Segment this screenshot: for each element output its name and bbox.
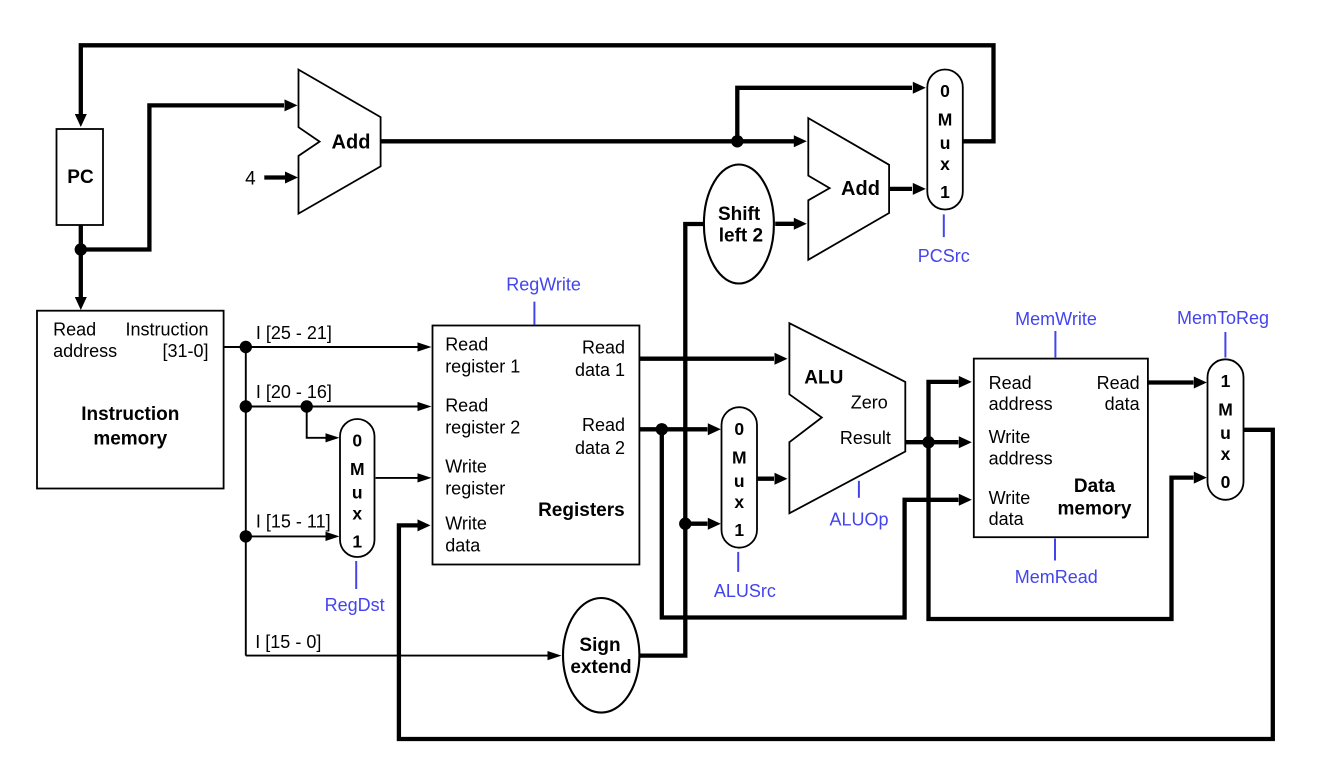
svg-text:data: data xyxy=(445,535,481,555)
wire: ALUSrc mux output to ALU input xyxy=(758,477,774,481)
svg-text:x: x xyxy=(352,504,362,524)
svg-text:MemToReg: MemToReg xyxy=(1177,308,1269,328)
wire: branch Add output to PCSrc mux input 1 xyxy=(889,187,912,191)
node: junction on Read data 2 xyxy=(656,423,668,435)
svg-text:u: u xyxy=(1220,423,1231,443)
wire: I[20-16] branch down to RegDst mux input 0 xyxy=(307,407,327,438)
svg-text:0: 0 xyxy=(734,419,744,439)
control signal ALUSrc xyxy=(737,552,739,572)
wire: Read data 2 to ALUSrc mux input 0 xyxy=(639,427,707,431)
wire: constant 4 into Add xyxy=(264,175,286,179)
svg-text:x: x xyxy=(940,154,950,174)
block: Registers xyxy=(433,326,640,565)
block: Instruction memory xyxy=(37,311,224,489)
wire: I[20-16] to Read register 2 xyxy=(246,406,419,408)
svg-text:M: M xyxy=(938,110,953,130)
wire: PC output down to Instruction memory read address xyxy=(79,222,83,298)
node: junction on PC+4 wire xyxy=(731,135,743,147)
register PC xyxy=(57,129,104,225)
svg-text:Sign: Sign xyxy=(579,635,620,656)
svg-text:Write: Write xyxy=(445,456,487,476)
svg-text:Read: Read xyxy=(53,320,96,340)
wire: PC branch to Add (PC+4) xyxy=(81,105,284,249)
svg-text:u: u xyxy=(352,483,363,503)
mux MemToReg xyxy=(1208,359,1244,500)
svg-text:extend: extend xyxy=(570,657,631,678)
wire: Instruction memory output to Read register 1 (I[25-21]) xyxy=(224,346,419,348)
svg-text:register 2: register 2 xyxy=(445,417,520,437)
control signal RegWrite xyxy=(533,302,535,325)
wire: instruction field vertical bus xyxy=(245,347,247,656)
svg-text:M: M xyxy=(732,447,747,467)
svg-text:data: data xyxy=(1105,394,1141,414)
mux PCSrc (top right) xyxy=(927,70,963,210)
svg-text:Write: Write xyxy=(989,427,1031,447)
control signal MemWrite xyxy=(1054,331,1056,358)
svg-text:Instruction: Instruction xyxy=(81,404,179,425)
svg-text:1: 1 xyxy=(940,182,950,202)
wire: ALU result to Data memory write address xyxy=(905,440,958,444)
svg-text:I [15 - 11]: I [15 - 11] xyxy=(256,512,331,532)
node: junction I[15-11] xyxy=(240,530,252,542)
svg-text:address: address xyxy=(989,394,1053,414)
control signal MemToReg xyxy=(1224,332,1226,358)
svg-text:RegDst: RegDst xyxy=(325,595,385,615)
svg-text:M: M xyxy=(350,459,365,479)
svg-text:address: address xyxy=(989,448,1053,468)
svg-text:[31-0]: [31-0] xyxy=(162,341,208,361)
svg-text:left 2: left 2 xyxy=(719,226,763,247)
svg-text:Result: Result xyxy=(840,428,891,448)
svg-text:MemRead: MemRead xyxy=(1015,567,1098,587)
svg-text:1: 1 xyxy=(352,532,362,552)
svg-text:Zero: Zero xyxy=(851,392,888,412)
wire: Sign extend output up to Shift left 2 xyxy=(640,224,707,656)
svg-text:M: M xyxy=(1218,399,1233,419)
adder Add (PC+4) xyxy=(299,70,381,214)
svg-text:Read: Read xyxy=(445,334,488,354)
node: junction I[25-21] xyxy=(240,341,252,353)
wire: PC+4 branch up to PCSrc mux input 0 xyxy=(737,88,912,142)
svg-text:register 1: register 1 xyxy=(445,356,520,376)
svg-text:data 2: data 2 xyxy=(575,438,625,458)
svg-text:register: register xyxy=(445,478,505,498)
wire: sign-extend branch to ALUSrc mux input 1 xyxy=(685,522,707,526)
svg-text:I [25 - 21]: I [25 - 21] xyxy=(256,323,332,343)
control signal PCSrc xyxy=(943,214,945,237)
svg-text:PCSrc: PCSrc xyxy=(918,246,970,266)
node: junction on ALU result xyxy=(922,436,934,448)
svg-text:0: 0 xyxy=(1221,472,1231,492)
svg-text:Write: Write xyxy=(445,513,487,533)
mux RegDst xyxy=(340,419,375,557)
oval: Shift left 2 xyxy=(704,165,774,284)
svg-text:data: data xyxy=(989,509,1025,529)
node: junction on sign-extend wire xyxy=(679,518,691,530)
svg-text:memory: memory xyxy=(93,428,167,449)
svg-text:data 1: data 1 xyxy=(575,360,625,380)
svg-text:Read: Read xyxy=(989,373,1032,393)
svg-text:1: 1 xyxy=(1221,371,1231,391)
svg-text:Shift: Shift xyxy=(718,204,761,225)
wire: Data memory read data to MemToReg mux input 1 xyxy=(1148,380,1194,384)
wire: Read data 2 branch to Data memory write data xyxy=(662,429,959,617)
svg-text:0: 0 xyxy=(352,431,362,451)
svg-text:x: x xyxy=(1221,444,1231,464)
svg-text:x: x xyxy=(734,492,744,512)
svg-text:I [20 - 16]: I [20 - 16] xyxy=(256,382,332,402)
svg-text:4: 4 xyxy=(245,169,256,190)
svg-text:memory: memory xyxy=(1058,498,1132,519)
svg-text:0: 0 xyxy=(940,81,950,101)
svg-text:Data: Data xyxy=(1074,476,1116,497)
wire: ALU result branch up to Data memory read address xyxy=(929,382,959,442)
alu ALU xyxy=(789,323,905,513)
block: Data memory xyxy=(974,359,1148,538)
svg-text:u: u xyxy=(734,471,745,491)
wire: I[15-0] to Sign extend xyxy=(246,655,549,657)
wire: Shift left 2 output to branch Add xyxy=(775,222,794,226)
svg-text:I [15 - 0]: I [15 - 0] xyxy=(255,632,321,652)
svg-text:1: 1 xyxy=(734,520,744,540)
svg-text:u: u xyxy=(940,133,951,153)
svg-text:Read: Read xyxy=(582,415,625,435)
wire: MemToReg mux output back to Registers write data xyxy=(399,430,1273,739)
control signal ALUOp xyxy=(858,481,860,498)
wire: I[15-11] to RegDst mux input 1 xyxy=(246,535,327,537)
svg-text:RegWrite: RegWrite xyxy=(506,275,581,295)
oval: Sign extend xyxy=(563,598,639,713)
node: junction I[20-16] on bus xyxy=(240,400,252,412)
node: junction below PC xyxy=(75,243,87,255)
svg-text:Write: Write xyxy=(989,488,1031,508)
svg-text:ALU: ALU xyxy=(804,367,843,388)
node: junction I[20-16] branch xyxy=(301,400,313,412)
svg-text:Registers: Registers xyxy=(538,500,625,521)
svg-text:PC: PC xyxy=(67,167,94,188)
wire: Add output to branch Add xyxy=(381,139,794,143)
svg-text:ALUSrc: ALUSrc xyxy=(714,581,776,601)
control signal MemRead xyxy=(1054,539,1056,561)
svg-text:Instruction: Instruction xyxy=(125,320,208,340)
wire: RegDst mux output to Write register xyxy=(376,477,419,479)
wire: ALU result branch down to MemToReg mux input 0 xyxy=(929,442,1194,619)
svg-text:Read: Read xyxy=(582,337,625,357)
mux ALUSrc xyxy=(722,407,758,548)
wire: PCSrc mux output feedback loop to PC xyxy=(81,45,994,141)
svg-text:Add: Add xyxy=(841,178,880,200)
control signal RegDst xyxy=(355,561,357,589)
svg-text:address: address xyxy=(53,341,117,361)
svg-text:ALUOp: ALUOp xyxy=(829,510,888,530)
wire: Read data 1 to ALU input xyxy=(639,357,774,361)
svg-text:MemWrite: MemWrite xyxy=(1015,309,1097,329)
adder Add (branch target) xyxy=(808,118,889,260)
svg-text:Read: Read xyxy=(445,395,488,415)
svg-text:Add: Add xyxy=(332,132,371,154)
svg-text:Read: Read xyxy=(1097,373,1140,393)
